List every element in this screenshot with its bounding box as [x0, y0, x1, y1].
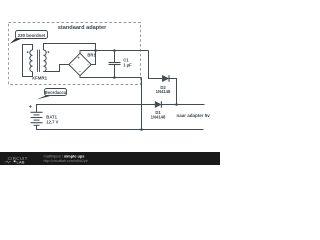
- wire: D2 cathode to output node: [169, 79, 177, 105]
- primary winding: [30, 50, 33, 72]
- svg-text:BR1: BR1: [87, 53, 96, 58]
- svg-text:LAB: LAB: [17, 159, 25, 164]
- wire: bridge - rail: [80, 76, 142, 78]
- node: output junction D1/D2: [175, 103, 178, 106]
- core: [37, 50, 39, 72]
- svg-text:Boordaccu: Boordaccu: [45, 90, 67, 95]
- node: battery-/bridge- junction: [140, 128, 143, 131]
- node: C1 top junction: [113, 49, 116, 52]
- wire: D1 cathode to output: [161, 104, 204, 106]
- phase dot secondary: [48, 51, 50, 53]
- wire: battery - rail: [37, 125, 204, 129]
- wire: secondary bottom to bridge AC left: [44, 65, 69, 72]
- svg-text:1N4148: 1N4148: [156, 89, 171, 94]
- svg-text:1N4148: 1N4148: [151, 114, 166, 119]
- svg-text:http://circuitlab.com/c6hk2yb: http://circuitlab.com/c6hk2yb: [44, 159, 88, 163]
- svg-text:naar adapter 5v: naar adapter 5v: [177, 113, 211, 118]
- callout: Boordaccu: [37, 89, 67, 100]
- logo: CircuitLab: [5, 156, 28, 164]
- phase dot primary: [27, 51, 29, 53]
- secondary winding: [44, 50, 47, 72]
- wire: + rail down to D2: [149, 51, 163, 79]
- wire: primary loop (mains side): [23, 45, 33, 77]
- wire: battery + rail to D1: [37, 105, 156, 113]
- node: transformer/bridge junction: [94, 49, 97, 52]
- svg-text:1 µF: 1 µF: [123, 63, 132, 68]
- footer bar: [0, 152, 220, 165]
- wire: bridge - down to battery - rail: [141, 78, 143, 130]
- wire: bridge + rail to C1 and D2 corner: [80, 51, 149, 54]
- node: C1 bottom junction: [113, 76, 116, 79]
- svg-text:standaard adapter: standaard adapter: [58, 25, 107, 31]
- diode D2: [156, 75, 171, 94]
- callout: 230 boordnet: [10, 31, 48, 44]
- transformer XFMR1: [27, 50, 50, 81]
- bridge rectifier BR1: [69, 53, 97, 76]
- diode D1: [151, 101, 166, 119]
- battery BAT1: [29, 105, 59, 125]
- capacitor C1: [109, 51, 133, 78]
- svg-text:XFMR1: XFMR1: [32, 76, 48, 81]
- svg-text:230 boordnet: 230 boordnet: [18, 33, 46, 38]
- wire: secondary top to bridge AC right: [44, 44, 96, 65]
- svg-text:12.7 V: 12.7 V: [46, 119, 58, 124]
- annotation dashed box: standaard adapter: [9, 23, 141, 85]
